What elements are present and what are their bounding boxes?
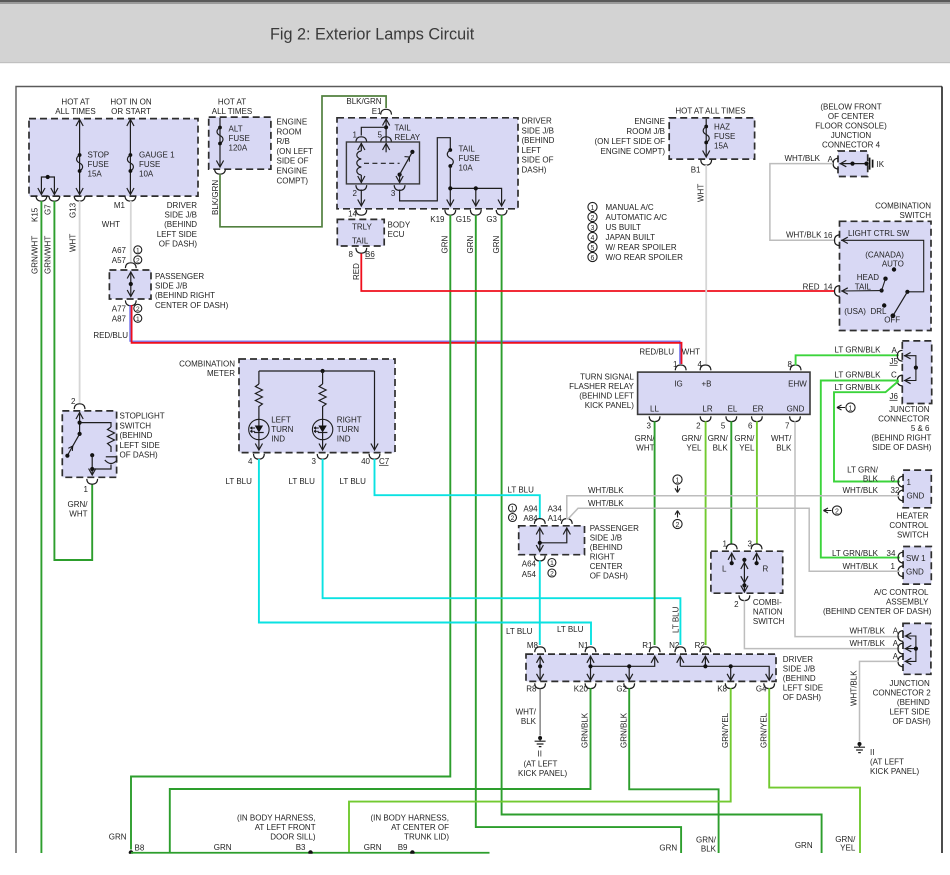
svg-text:US BUILT: US BUILT [606, 223, 642, 232]
wire GND WHT/BLK to junction connector 2 [795, 421, 900, 636]
svg-text:BLK: BLK [713, 444, 729, 453]
svg-text:SIDE J/B: SIDE J/B [590, 534, 622, 543]
bump pin 2 [356, 185, 367, 190]
svg-text:TURN: TURN [337, 425, 359, 434]
connector bump E1 [381, 109, 392, 114]
svg-text:(BEHIND LEFT: (BEHIND LEFT [579, 392, 634, 401]
svg-text:G3: G3 [486, 215, 497, 224]
svg-text:AUTO: AUTO [882, 260, 904, 269]
svg-text:3: 3 [646, 422, 651, 431]
option marker circle 2 [134, 304, 142, 313]
svg-text:BLK: BLK [776, 444, 792, 453]
internal wire with junction [130, 272, 132, 296]
wire EL GRN/BLK to combination switch 1 [730, 421, 732, 544]
svg-text:6: 6 [891, 475, 896, 484]
connector box junction connector 2 [903, 623, 931, 674]
svg-text:WHT/BLK: WHT/BLK [588, 499, 624, 508]
svg-text:GRN/: GRN/ [682, 434, 703, 443]
bump pin GND (A/C 1) [898, 566, 903, 577]
svg-text:C: C [891, 371, 897, 380]
svg-text:SIDE OF: SIDE OF [522, 156, 554, 165]
option marker circle 1 [134, 314, 142, 323]
svg-text:DRIVER: DRIVER [783, 655, 813, 664]
svg-text:BLK: BLK [863, 475, 879, 484]
svg-text:LEFT SIDE: LEFT SIDE [157, 230, 197, 239]
svg-text:2: 2 [676, 522, 680, 529]
svg-text:SIDE OF: SIDE OF [277, 157, 309, 166]
top bumps 1 4 8 [675, 365, 686, 370]
meter box [239, 359, 395, 453]
internal R contact [756, 553, 758, 562]
svg-text:CONNECTOR: CONNECTOR [878, 415, 930, 424]
fuse STOP FUSE 15A element [77, 153, 83, 173]
svg-text:LL: LL [650, 405, 659, 414]
svg-text:N2: N2 [669, 641, 680, 650]
svg-text:KICK PANEL): KICK PANEL) [518, 769, 568, 778]
svg-text:COMBINATION: COMBINATION [875, 202, 931, 211]
svg-text:(BEHIND RIGHT: (BEHIND RIGHT [871, 434, 931, 443]
bump node B1 [701, 160, 712, 165]
svg-text:2: 2 [511, 515, 515, 522]
svg-text:6: 6 [748, 422, 753, 431]
svg-text:GND: GND [906, 568, 924, 577]
svg-text:10A: 10A [459, 164, 474, 173]
svg-text:6: 6 [591, 255, 595, 262]
wire RED from body ECU to light control switch pin 14 [361, 254, 835, 292]
wire WHT/BLK combination switch 2 to junction connector 2 [744, 600, 899, 648]
svg-text:LT BLU: LT BLU [506, 627, 533, 636]
svg-text:YEL: YEL [686, 444, 702, 453]
svg-text:(BEHIND: (BEHIND [897, 698, 930, 707]
switch box A/C CONTROL ASSEMBLY [903, 547, 931, 585]
svg-text:LEFT SIDE: LEFT SIDE [120, 441, 160, 450]
bump pin 5 [381, 137, 392, 142]
svg-text:RED/BLU: RED/BLU [93, 331, 128, 340]
svg-text:GRN/: GRN/ [68, 500, 89, 509]
svg-text:JAPAN BUILT: JAPAN BUILT [606, 233, 656, 242]
svg-text:WHT/BLK: WHT/BLK [784, 154, 820, 163]
svg-text:(USA): (USA) [844, 307, 866, 316]
internal link [904, 356, 916, 381]
svg-text:(CANADA): (CANADA) [865, 251, 904, 260]
bottom bumps R8 K20 G2 K8 G4 [535, 683, 546, 688]
svg-text:LT BLU: LT BLU [557, 625, 584, 634]
option marker 4 JAPAN BUILT [588, 232, 597, 241]
svg-text:GRN/WHT: GRN/WHT [44, 236, 53, 274]
internal top bus [259, 370, 375, 372]
svg-text:G7: G7 [44, 204, 53, 215]
svg-text:WHT: WHT [682, 348, 700, 357]
option marker 1 MANUAL A/C [588, 202, 597, 211]
relay actuator dashed link [364, 162, 400, 164]
fuse HAZ FUSE 15A wire [705, 119, 707, 156]
wire K8 GRN/YEL to bottom bus [349, 688, 731, 853]
svg-text:14: 14 [824, 283, 833, 292]
svg-text:DRIVER: DRIVER [522, 117, 552, 126]
svg-text:ALL TIMES: ALL TIMES [55, 107, 95, 116]
svg-text:1: 1 [907, 478, 912, 487]
option marker circle 2 [134, 256, 142, 265]
svg-text:WHT/BLK: WHT/BLK [850, 670, 859, 706]
svg-text:A: A [891, 346, 897, 355]
svg-text:OF CENTER: OF CENTER [828, 112, 874, 121]
svg-text:8: 8 [349, 250, 354, 259]
svg-text:STOP: STOP [88, 151, 110, 160]
branch to relay pin 1 [361, 127, 386, 135]
svg-text:4: 4 [248, 457, 253, 466]
svg-text:LT GRN/BLK: LT GRN/BLK [835, 346, 882, 355]
svg-text:A87: A87 [112, 315, 127, 324]
option marker 6 W/O REAR SPOILER [588, 252, 597, 261]
svg-text:LT BLU: LT BLU [672, 606, 681, 633]
svg-text:COMPT): COMPT) [277, 176, 309, 185]
svg-text:CONTROL: CONTROL [889, 521, 929, 530]
svg-text:R8: R8 [526, 685, 537, 694]
svg-text:OR START: OR START [111, 107, 151, 116]
svg-text:ENGINE COMPT): ENGINE COMPT) [601, 147, 666, 156]
fuse HAZ FUSE 15A element [703, 125, 709, 145]
wire K15 GRN/WHT long left vertical [40, 201, 42, 853]
wire G13 WHT to stoplight switch [79, 201, 81, 403]
connector box JUNCTION CONNECTOR 4 [838, 151, 868, 177]
svg-text:EL: EL [728, 405, 738, 414]
pin 1 bump [87, 479, 98, 484]
relay TAIL RELAY inner box [346, 142, 419, 184]
TAIL-HEAD lever [882, 279, 886, 291]
svg-text:32: 32 [891, 486, 900, 495]
svg-text:SIDE J/B: SIDE J/B [522, 126, 554, 135]
switch box combination switch [711, 551, 783, 593]
bottom bus GRN [131, 852, 490, 854]
svg-text:JUNCTION: JUNCTION [889, 405, 930, 414]
svg-text:1: 1 [136, 316, 140, 323]
svg-text:G13: G13 [69, 202, 78, 218]
svg-text:3: 3 [591, 225, 595, 232]
wire EHW LT GRN/BLK to junction connector A [796, 355, 899, 365]
svg-text:2: 2 [136, 257, 140, 264]
svg-text:SWITCH: SWITCH [897, 531, 929, 540]
svg-text:CONNECTOR 2: CONNECTOR 2 [873, 689, 932, 698]
svg-text:GRN/: GRN/ [708, 434, 729, 443]
splice bars (IK) [870, 158, 873, 170]
svg-text:WHT: WHT [636, 444, 654, 453]
svg-text:WHT: WHT [69, 234, 78, 252]
bump pin 1 [726, 544, 737, 549]
svg-text:(BEHIND: (BEHIND [590, 543, 623, 552]
ground II (at left kick panel, right) [854, 742, 865, 753]
svg-text:OF DASH): OF DASH) [159, 239, 198, 248]
internal bus with splice [840, 163, 867, 165]
svg-text:2: 2 [550, 571, 554, 578]
svg-text:SWITCH: SWITCH [753, 617, 785, 626]
svg-text:1: 1 [891, 562, 896, 571]
capacitor-like element [106, 456, 116, 458]
svg-text:CENTER: CENTER [590, 562, 623, 571]
svg-text:JUNCTION: JUNCTION [889, 679, 930, 688]
relay coil [360, 143, 362, 151]
junction block DRIVER SIDE J/B [526, 654, 776, 681]
svg-text:TURN SIGNAL: TURN SIGNAL [580, 373, 634, 382]
svg-text:GRN: GRN [795, 841, 813, 850]
pin 2 bump [74, 404, 85, 409]
connector A77/A87 bump [125, 300, 136, 305]
svg-text:(BEHIND: (BEHIND [120, 431, 153, 440]
splice B9 [410, 850, 415, 855]
svg-text:RELAY: RELAY [395, 133, 421, 142]
svg-text:TAIL: TAIL [459, 145, 476, 154]
svg-text:GRN/: GRN/ [734, 434, 755, 443]
svg-text:A67: A67 [112, 246, 127, 255]
wire G4 GRN/YEL to bottom [769, 688, 860, 853]
top bumps M8 N1 R1 N2 R2 [535, 647, 546, 652]
junction block ENGINE ROOM J/B [669, 118, 754, 159]
svg-text:IND: IND [271, 435, 285, 444]
svg-text:NATION: NATION [753, 608, 783, 617]
junction block DRIVER SIDE J/B big box [337, 118, 518, 209]
svg-text:A/C CONTROL: A/C CONTROL [874, 588, 929, 597]
wire RED/BLU from passenger J/B to flasher relay IG (two-tone) [130, 305, 680, 364]
svg-text:LT BLU: LT BLU [340, 477, 367, 486]
LED LEFT TURN IND [249, 419, 269, 439]
svg-text:COMBI-: COMBI- [753, 598, 782, 607]
bump pin 14 [835, 286, 840, 297]
option marker circle 1 [548, 559, 556, 568]
svg-text:LT BLU: LT BLU [508, 486, 535, 495]
svg-text:1: 1 [676, 477, 680, 484]
bump A64/A54 [534, 556, 545, 561]
internal feed with arrow [79, 412, 81, 434]
svg-text:OF DASH): OF DASH) [590, 572, 629, 581]
fuse ALT FUSE 120A element [217, 126, 223, 146]
wire K19 GRN down to B8 splice [131, 215, 450, 850]
svg-text:A77: A77 [112, 305, 127, 314]
bump pin 14 [356, 210, 367, 215]
svg-text:AT CENTER OF: AT CENTER OF [391, 823, 449, 832]
svg-text:TRLY: TRLY [352, 223, 373, 232]
svg-text:(AT LEFT: (AT LEFT [524, 760, 558, 769]
bump pin 2 [739, 595, 750, 600]
svg-text:W/O REAR SPOILER: W/O REAR SPOILER [606, 253, 684, 262]
svg-text:B3: B3 [296, 843, 306, 852]
svg-text:OF DASH): OF DASH) [120, 451, 159, 460]
svg-text:B6: B6 [365, 250, 375, 259]
bump pin 3 [394, 185, 405, 190]
svg-text:15A: 15A [714, 142, 729, 151]
svg-text:A94: A94 [523, 505, 538, 514]
switch box LIGHT CTRL SW [840, 221, 932, 330]
svg-text:HEAD: HEAD [857, 273, 879, 282]
junction block J/B box (stop/gauge fuses) [29, 119, 198, 197]
svg-text:(BEHIND CENTER OF DASH): (BEHIND CENTER OF DASH) [823, 607, 932, 616]
svg-text:C7: C7 [379, 457, 390, 466]
svg-text:HAZ: HAZ [714, 123, 730, 132]
svg-text:WHT/BLK: WHT/BLK [588, 486, 624, 495]
wire pin 2 to body ECU [360, 190, 362, 206]
position dot TAIL [880, 288, 884, 292]
bump pin A [833, 158, 838, 169]
svg-text:GRN/WHT: GRN/WHT [31, 236, 40, 274]
connector box junction connector 5 & 6 [902, 341, 931, 404]
svg-text:K19: K19 [430, 215, 445, 224]
svg-text:PASSENGER: PASSENGER [590, 524, 639, 533]
svg-text:GRN/BLK: GRN/BLK [620, 712, 629, 748]
resistor (right turn) [319, 384, 326, 419]
svg-text:J6: J6 [890, 392, 899, 401]
option marker circle 1 [509, 504, 517, 513]
svg-text:1: 1 [673, 360, 678, 369]
option marker 2 AUTOMATIC A/C [588, 212, 597, 221]
wire ER GRN/YEL to combination switch 3 [756, 421, 758, 544]
svg-text:WHT/BLK: WHT/BLK [786, 231, 822, 240]
svg-text:14: 14 [348, 210, 357, 219]
svg-text:BLK/GRN: BLK/GRN [346, 97, 381, 106]
svg-text:K8: K8 [717, 685, 727, 694]
fuse STOP FUSE 15A feed wire [79, 120, 81, 195]
svg-text:OFF: OFF [884, 316, 900, 325]
switch lever (open) [67, 434, 79, 456]
internal branch to K15/G7 with junction [41, 177, 54, 194]
connector bumps below J/B [36, 196, 47, 201]
svg-text:SIDE J/B: SIDE J/B [155, 282, 187, 291]
svg-text:YEL: YEL [739, 444, 755, 453]
svg-text:M8: M8 [527, 641, 539, 650]
internal N1 group path [591, 656, 655, 680]
position dot DRL [882, 303, 886, 307]
svg-text:SW 1: SW 1 [906, 554, 926, 563]
svg-text:1: 1 [849, 405, 853, 412]
relay box ENGINE ROOM R/B [209, 117, 271, 169]
relay pin 5 contact feed [385, 143, 387, 152]
svg-text:SWITCH: SWITCH [899, 211, 931, 220]
svg-text:DRIVER: DRIVER [167, 201, 197, 210]
fuse ALT FUSE 120A wire [219, 118, 221, 166]
svg-text:3: 3 [748, 540, 753, 549]
svg-text:LT GRN/: LT GRN/ [847, 466, 879, 475]
bumps K19 G15 G3 [445, 210, 456, 215]
svg-text:FUSE: FUSE [139, 160, 160, 169]
svg-text:YEL: YEL [840, 844, 856, 853]
svg-text:LEFT: LEFT [271, 416, 291, 425]
svg-text:CONNECTOR 4: CONNECTOR 4 [822, 141, 881, 150]
svg-text:FLASHER RELAY: FLASHER RELAY [569, 382, 634, 391]
svg-text:GAUGE 1: GAUGE 1 [139, 151, 175, 160]
wire LT GRN/BLK C to heater control 6 [834, 381, 900, 482]
header top rule [0, 0, 950, 2]
wire R8 WHT/BLK to ground [539, 688, 541, 735]
bump pin 1 [356, 137, 367, 142]
svg-text:STOPLIGHT: STOPLIGHT [120, 412, 165, 421]
svg-text:SIDE J/B: SIDE J/B [783, 664, 815, 673]
svg-text:B8: B8 [135, 844, 145, 853]
svg-text:SIDE OF DASH): SIDE OF DASH) [872, 443, 931, 452]
svg-text:GND: GND [787, 405, 805, 414]
output junction and exit [90, 453, 94, 457]
svg-text:GRN/BLK: GRN/BLK [581, 712, 590, 748]
svg-text:A: A [893, 652, 899, 661]
wire WHT from B1 to flasher +B [705, 165, 707, 364]
relay box turn signal flasher [638, 372, 810, 414]
OFF lever [893, 292, 908, 316]
wire WHT/BLK heater ground branch [567, 496, 900, 520]
svg-text:A54: A54 [522, 570, 537, 579]
wire G2 GRN/BLK to bottom [629, 688, 718, 853]
svg-text:4: 4 [698, 360, 703, 369]
svg-text:FUSE: FUSE [88, 160, 109, 169]
svg-text:TURN: TURN [271, 425, 293, 434]
svg-text:E1: E1 [372, 107, 382, 116]
bump pin A [897, 350, 902, 361]
svg-text:LEFT SIDE: LEFT SIDE [889, 708, 929, 717]
svg-text:A: A [893, 639, 899, 648]
svg-text:GRN: GRN [659, 844, 677, 853]
svg-text:MANUAL A/C: MANUAL A/C [606, 203, 654, 212]
right branch wire [374, 371, 376, 449]
svg-text:RIGHT: RIGHT [337, 416, 362, 425]
svg-text:HEATER: HEATER [897, 512, 929, 521]
svg-text:HOT AT: HOT AT [61, 98, 89, 107]
marker arrow to circled 2 [823, 508, 831, 513]
svg-text:R1: R1 [642, 641, 653, 650]
svg-text:G2: G2 [616, 685, 627, 694]
svg-text:HOT AT ALL TIMES: HOT AT ALL TIMES [675, 107, 745, 116]
position dot HEAD [883, 277, 887, 281]
connector bump below R/B [215, 169, 226, 174]
svg-text:A14: A14 [548, 514, 563, 523]
svg-text:A: A [893, 627, 899, 636]
wire WHT/BLK junction connector 4 to light ctrl sw 16 [770, 164, 835, 241]
junction block PASSENGER SIDE J/B [109, 270, 151, 299]
svg-text:(AT LEFT: (AT LEFT [870, 758, 904, 767]
left branch wire [258, 371, 260, 384]
svg-text:A84: A84 [523, 514, 538, 523]
svg-text:2: 2 [71, 397, 76, 406]
option marker 3 US BUILT [588, 222, 597, 231]
svg-text:PASSENGER: PASSENGER [155, 272, 204, 281]
svg-text:2: 2 [591, 215, 595, 222]
svg-text:Fig 2: Exterior Lamps Circuit: Fig 2: Exterior Lamps Circuit [270, 26, 475, 44]
svg-text:A: A [828, 155, 834, 164]
wire LT BLU meter 4 to N1 [259, 459, 591, 645]
svg-text:ECU: ECU [388, 230, 405, 239]
svg-text:1: 1 [84, 485, 89, 494]
internal M8-R8 path [539, 656, 541, 680]
switch box HEATER CONTROL SWITCH [903, 470, 931, 508]
bump A94/A84 [534, 519, 545, 524]
svg-text:W/ REAR SPOILER: W/ REAR SPOILER [606, 243, 677, 252]
svg-text:1: 1 [723, 540, 728, 549]
svg-text:5: 5 [721, 422, 726, 431]
svg-text:1: 1 [511, 506, 515, 513]
svg-text:BLK: BLK [701, 844, 717, 853]
svg-text:LT GRN/BLK: LT GRN/BLK [832, 549, 879, 558]
svg-text:WHT: WHT [697, 184, 706, 202]
svg-text:LIGHT CTRL SW: LIGHT CTRL SW [848, 229, 910, 238]
svg-text:(IN BODY HARNESS,: (IN BODY HARNESS, [237, 814, 316, 823]
wire LT GRN/BLK C to A/C control SW1 [821, 381, 900, 558]
svg-text:G15: G15 [456, 215, 472, 224]
svg-text:WHT/: WHT/ [771, 434, 792, 443]
svg-text:+B: +B [701, 380, 711, 389]
option marker circle 1 [134, 246, 142, 255]
svg-text:J5: J5 [890, 357, 899, 366]
svg-text:GRN: GRN [441, 236, 450, 254]
option marker 5 W/ REAR SPOILER [588, 242, 597, 251]
svg-text:WHT: WHT [69, 510, 87, 519]
svg-text:IND: IND [337, 435, 351, 444]
svg-text:GRN: GRN [492, 236, 501, 254]
middle branch wire [322, 371, 324, 384]
svg-text:TAIL: TAIL [395, 124, 412, 133]
